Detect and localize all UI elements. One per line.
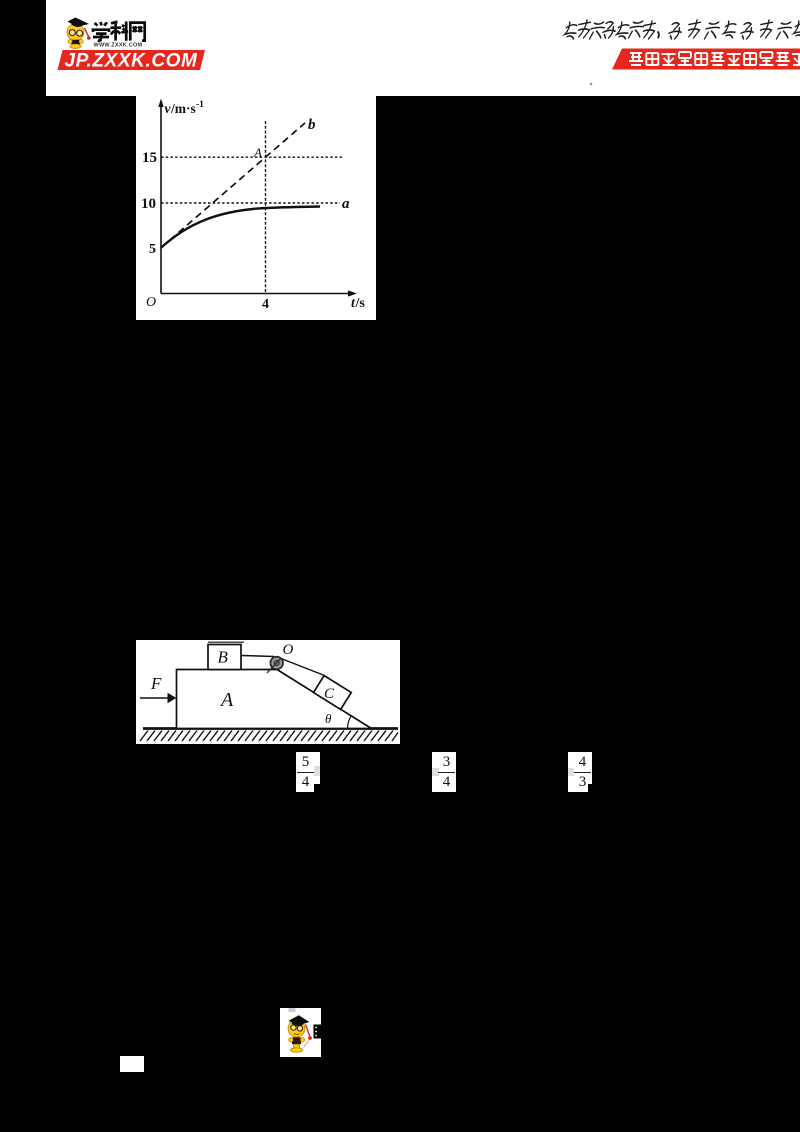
svg-text:θ: θ <box>325 711 332 726</box>
svg-text:-1: -1 <box>196 100 204 110</box>
svg-text:10: 10 <box>141 196 156 212</box>
face <box>288 1020 305 1037</box>
blackboard slate <box>314 1025 322 1039</box>
svg-text:/s: /s <box>355 296 366 311</box>
HEADER <box>46 0 800 96</box>
dashed line y=15 <box>161 156 342 158</box>
stray line above B <box>208 641 244 643</box>
feet <box>70 44 81 48</box>
y axis <box>160 105 162 294</box>
DIAGRAM BOX <box>136 640 400 744</box>
fraction 4/3 <box>568 752 592 792</box>
dashed line y=10 <box>161 202 340 204</box>
block C rotated on incline <box>314 676 352 710</box>
white banner slogan glyphs <box>629 52 800 65</box>
svg-text:JP.ZXXK.COM: JP.ZXXK.COM <box>65 51 199 72</box>
red banner right <box>612 49 800 70</box>
svg-text:F: F <box>150 674 162 693</box>
svg-text:b: b <box>308 117 316 133</box>
legs and feet <box>294 1044 300 1049</box>
force F arrow <box>140 697 169 699</box>
grey strip top <box>289 1008 296 1012</box>
cursive slogan (handwritten Chinese approximation) <box>564 20 800 39</box>
svg-text:C: C <box>324 686 335 702</box>
small white rectangle bottom-left <box>120 1056 144 1072</box>
curve a <box>161 207 320 248</box>
dashed line b <box>161 123 305 248</box>
科 <box>111 22 122 41</box>
vertical dashed line x=4 <box>265 121 267 294</box>
face <box>67 24 84 41</box>
svg-text:4: 4 <box>262 297 269 312</box>
mascot (header logo) <box>67 18 91 49</box>
glasses <box>291 1025 296 1030</box>
GRAPH BOX <box>136 96 376 320</box>
body <box>292 1037 301 1044</box>
svg-text:O: O <box>283 642 294 658</box>
tassel <box>85 28 89 37</box>
fraction 5/4 <box>296 752 320 792</box>
block A wedge <box>177 670 372 729</box>
svg-text:O: O <box>146 295 156 310</box>
tassel <box>306 1025 310 1037</box>
svg-text:WWW.ZXXK.COM: WWW.ZXXK.COM <box>94 42 143 48</box>
ground line <box>143 727 398 730</box>
red banner left (JP.ZXXK.COM) <box>58 50 206 70</box>
x axis <box>161 293 351 295</box>
svg-text:15: 15 <box>142 150 157 166</box>
mouth <box>294 1033 300 1034</box>
string B to pulley <box>241 656 274 657</box>
block B <box>208 645 241 670</box>
svg-text:/m·s: /m·s <box>170 101 196 116</box>
svg-text:5: 5 <box>149 242 156 257</box>
logo text 学科网 <box>93 22 145 41</box>
glasses <box>69 30 75 36</box>
网 <box>130 23 144 41</box>
MASCOT BOX <box>280 1008 321 1057</box>
angle theta arc <box>348 716 352 729</box>
string pulley to C <box>281 659 325 676</box>
学 <box>95 22 108 26</box>
svg-text:B: B <box>218 648 229 667</box>
svg-text:a: a <box>342 196 350 212</box>
mortarboard <box>68 18 90 28</box>
fraction 3/4 <box>432 752 456 792</box>
tiny grey dot <box>590 83 593 86</box>
pulley at O <box>270 657 283 670</box>
svg-text:A: A <box>253 145 262 160</box>
ground hatching <box>140 731 398 742</box>
body <box>71 40 80 46</box>
svg-text:A: A <box>219 689 234 711</box>
mortarboard <box>289 1015 310 1025</box>
